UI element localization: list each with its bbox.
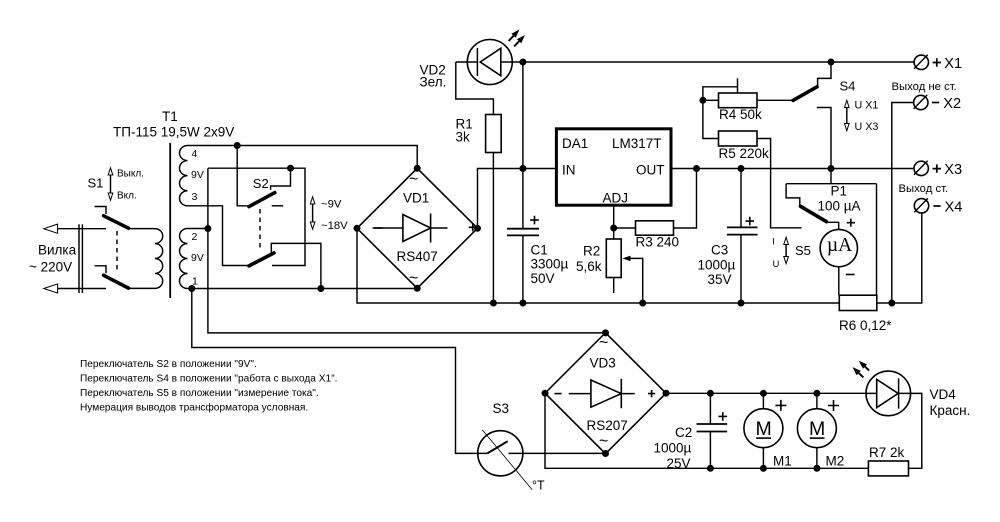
svg-text:R2: R2 xyxy=(583,244,600,259)
svg-text:I: I xyxy=(772,236,775,247)
S4 position arrow U X1 / U X3 xyxy=(846,105,848,127)
meter plus mark xyxy=(847,219,855,227)
svg-text:X1: X1 xyxy=(944,56,962,72)
svg-text:3300µ: 3300µ xyxy=(531,257,569,272)
svg-text:Переключатель S4 в положении ": Переключатель S4 в положении "работа с в… xyxy=(80,373,338,385)
wire S2 lower contact hook to pin1 rail xyxy=(271,243,321,288)
VD3 vertex node left xyxy=(542,390,549,397)
svg-text:9V: 9V xyxy=(191,169,204,181)
svg-text:DA1: DA1 xyxy=(562,136,588,151)
svg-text:µA: µA xyxy=(827,235,852,256)
node pin1 xyxy=(188,285,195,292)
bridge rectifier VD1 diamond xyxy=(357,168,478,288)
wire OUT rail to X3 xyxy=(671,168,914,170)
capacitor C3 plates xyxy=(727,227,758,234)
node R2 wiper/0V xyxy=(639,300,646,307)
terminal X2 xyxy=(914,95,928,109)
svg-text:Зел.: Зел. xyxy=(420,75,447,90)
node C2 top xyxy=(707,390,714,397)
switch S4 blade xyxy=(793,87,817,101)
svg-text:Выход не ст.: Выход не ст. xyxy=(892,81,957,93)
potentiometer R2 body xyxy=(606,239,621,278)
svg-text:ТП-115 19,5W 2x9V: ТП-115 19,5W 2x9V xyxy=(113,125,234,140)
node X1 rail / S4 xyxy=(828,59,835,66)
svg-text:~: ~ xyxy=(409,171,418,188)
wire pin4 rail to VD1 top xyxy=(188,146,418,169)
S1 position arrow xyxy=(110,172,112,196)
svg-text:1000µ: 1000µ xyxy=(698,258,736,273)
svg-text:~: ~ xyxy=(599,433,608,450)
wire 0V rail from VD1 minus xyxy=(357,228,839,303)
mains cord double line xyxy=(78,224,80,293)
S2 upper alternate contact dash xyxy=(272,205,284,207)
svg-text:ADJ: ADJ xyxy=(603,191,629,206)
label +X1 xyxy=(933,58,941,66)
wire X2 riser xyxy=(892,103,913,304)
node tap/S2 upper contact xyxy=(287,165,294,172)
terminal X1 xyxy=(914,55,928,69)
wire S3 to VD3 bottom xyxy=(509,452,606,454)
label +X3 xyxy=(933,164,941,172)
svg-text:T1: T1 xyxy=(162,109,178,124)
svg-text:R6 0,12*: R6 0,12* xyxy=(839,318,892,333)
svg-text:50V: 50V xyxy=(531,271,555,286)
svg-text:5,6k: 5,6k xyxy=(576,259,602,274)
node S2 lower contact riser on pin1 rail xyxy=(317,285,324,292)
VD1 vertex node top xyxy=(414,165,421,172)
wire VD3 plus rail xyxy=(666,392,866,394)
svg-text:~: ~ xyxy=(599,335,608,352)
wire pin3 to S2 lower pivot xyxy=(188,206,249,266)
wire VD1 plus riser / IN rail xyxy=(478,169,557,229)
VD2 light arrows xyxy=(509,36,514,41)
thermal switch S3 circle xyxy=(478,431,523,476)
wire pin2 stub xyxy=(188,228,208,230)
node R1/0V xyxy=(490,300,497,307)
switch S1 pole B blade xyxy=(104,275,129,288)
VD3 vertex node bottom xyxy=(602,450,609,457)
wire VD4 to R7 xyxy=(909,393,922,468)
svg-text:X2: X2 xyxy=(943,96,961,112)
wire R4/R5 left link xyxy=(703,100,719,138)
svg-text:OUT: OUT xyxy=(636,163,665,178)
svg-text:3: 3 xyxy=(192,191,198,203)
svg-text:~18V: ~18V xyxy=(321,220,348,232)
plug prong arrow bottom xyxy=(44,284,58,293)
svg-text:R5 220k: R5 220k xyxy=(719,146,770,161)
wire pin1 rail to VD1 bottom xyxy=(188,288,418,290)
svg-text:1000µ: 1000µ xyxy=(654,441,692,456)
svg-text:Нумерация выводов трансформато: Нумерация выводов трансформатора условна… xyxy=(80,402,308,414)
S2 range arrow ~9V/~18V xyxy=(312,201,314,225)
S5 fixed contact I xyxy=(786,184,800,206)
wire R3 to OUT rail xyxy=(674,169,697,229)
wire S5 pivot to meter plus xyxy=(827,222,839,229)
svg-text:4: 4 xyxy=(192,148,198,160)
S1 gang dashed link xyxy=(116,231,118,273)
wire tap rail (pin2 riser) xyxy=(208,168,305,265)
node pin4/S2 xyxy=(234,142,241,149)
wire C1 to 0V rail xyxy=(522,235,524,303)
VD3 vertex node right xyxy=(663,390,670,397)
T1 core xyxy=(169,143,171,298)
VD3 minus mark xyxy=(554,393,561,395)
svg-text:Вкл.: Вкл. xyxy=(117,191,137,202)
node OUT/C3 xyxy=(738,165,745,172)
svg-text:9V: 9V xyxy=(191,252,204,264)
svg-text:Выкл.: Выкл. xyxy=(117,169,144,180)
svg-text:~9V: ~9V xyxy=(321,199,342,211)
S2 gang dashed link xyxy=(259,209,261,251)
C2 plus mark xyxy=(718,412,727,421)
svg-text:VD4: VD4 xyxy=(930,387,957,402)
svg-text:R3 240: R3 240 xyxy=(636,235,680,250)
wire ADJ to R3 xyxy=(617,227,636,229)
M1 plus mark xyxy=(775,400,786,411)
svg-text:S5: S5 xyxy=(795,243,811,258)
switch S1 pole B fixed contact xyxy=(95,266,107,274)
C3 plus mark xyxy=(746,217,755,226)
VD1 vertex node left xyxy=(354,225,361,232)
VD3 vertex node top xyxy=(602,329,609,336)
VD1 vertex node bottom xyxy=(414,285,421,292)
wire X1 rail to IN rail / C1 xyxy=(522,62,524,229)
node M2 bottom xyxy=(813,465,820,472)
VD1 plus mark xyxy=(469,223,477,231)
terminal X3 xyxy=(914,161,928,175)
S5 position arrow xyxy=(785,242,787,260)
svg-text:U X3: U X3 xyxy=(855,121,879,133)
node C1/0V xyxy=(519,300,526,307)
wire pin1 to S3 xyxy=(192,289,488,454)
VD2 diode symbol xyxy=(456,48,513,76)
svg-text:Переключатель S2 в положении ": Переключатель S2 в положении "9V". xyxy=(80,359,257,370)
node IN rail / C1 xyxy=(519,165,526,172)
node R6 right / X2 riser xyxy=(888,300,895,307)
wire mains top xyxy=(58,228,106,230)
VD3 plus mark xyxy=(648,390,655,397)
svg-text:RS407: RS407 xyxy=(397,249,438,264)
wire R4 left lead xyxy=(703,99,719,101)
VD4 light arrows xyxy=(859,373,864,377)
svg-text:C2: C2 xyxy=(675,425,692,440)
node M1 top xyxy=(760,390,767,397)
node C2 bottom xyxy=(707,465,714,472)
VD3 internal diode xyxy=(569,393,635,395)
R2 bottom stub xyxy=(613,278,615,294)
wire P1 branch from OUT node xyxy=(786,169,876,184)
node VD2/X1 rail xyxy=(519,59,526,66)
svg-text:VD1: VD1 xyxy=(403,191,429,206)
motor M2 circle xyxy=(797,409,836,448)
wire S2 upper contact hook xyxy=(271,168,291,190)
wire R5 right to S5 U-contact xyxy=(757,139,802,228)
switch S1 pole A blade xyxy=(104,216,129,228)
T1 secondary winding II (pins 2-1) xyxy=(180,229,188,289)
R4 wiper stub and bracket xyxy=(703,78,738,100)
wire pin2 vertical down to lower bridge xyxy=(208,168,606,333)
potentiometer R4 body xyxy=(719,93,758,108)
svg-text:R7 2k: R7 2k xyxy=(869,445,905,460)
motor M1 circle xyxy=(744,409,783,448)
capacitor C2 plates xyxy=(697,424,728,432)
svg-text:~: ~ xyxy=(409,270,418,287)
R2 wiper arrow xyxy=(623,256,631,262)
switch S2 upper blade xyxy=(249,193,275,207)
svg-text:Переключатель S5 в положении ": Переключатель S5 в положении "измерение … xyxy=(80,388,319,399)
wire mains bottom xyxy=(58,288,106,290)
LED VD2 circle xyxy=(467,40,512,85)
wire C3 riser xyxy=(740,169,742,228)
svg-text:Красн.: Красн. xyxy=(930,403,971,418)
node ADJ xyxy=(610,225,617,232)
svg-text:S2: S2 xyxy=(253,176,269,191)
svg-text:IN: IN xyxy=(562,163,576,178)
node M1 bottom xyxy=(760,465,767,472)
node pin2 xyxy=(204,225,211,232)
wire C2 riser xyxy=(709,393,711,424)
VD1 vertex node right xyxy=(474,225,481,232)
LED VD4 circle xyxy=(866,371,911,416)
svg-text:P1: P1 xyxy=(831,184,848,199)
regulator DA1 LM317T box xyxy=(556,129,671,205)
node R4/R5 left xyxy=(699,97,706,104)
svg-text:LM317T: LM317T xyxy=(612,136,662,151)
S3 blade xyxy=(487,441,507,453)
svg-text:100 µA: 100 µA xyxy=(818,199,861,214)
svg-text:M: M xyxy=(755,418,771,440)
shunt resistor R6 xyxy=(839,295,877,310)
resistor R7 xyxy=(868,461,908,476)
svg-text:°T: °T xyxy=(532,479,545,493)
svg-text:S4: S4 xyxy=(840,79,856,94)
svg-text:M: M xyxy=(809,418,825,440)
M1 wires xyxy=(762,393,764,468)
S3 temperature line xyxy=(482,430,532,490)
svg-text:Выход ст.: Выход ст. xyxy=(899,183,949,195)
svg-text:35V: 35V xyxy=(708,272,732,287)
svg-text:X3: X3 xyxy=(944,162,962,178)
node OUT/R3 riser xyxy=(693,165,700,172)
label -X2 xyxy=(932,102,939,104)
T1 secondary winding I (pins 4-3) xyxy=(180,146,188,206)
wire VD3 minus to lower 0V rail xyxy=(545,393,868,468)
wire S4 top contact from X1 rail xyxy=(818,62,831,86)
svg-text:U: U xyxy=(773,259,780,270)
meter minus mark xyxy=(846,274,855,276)
svg-text:3k: 3k xyxy=(456,130,471,145)
node M2 top xyxy=(813,390,820,397)
M2 plus mark xyxy=(828,400,839,411)
wire R4 right lead to S4 xyxy=(757,99,793,101)
svg-text:RS207: RS207 xyxy=(587,418,628,433)
svg-text:S1: S1 xyxy=(88,176,104,191)
svg-text:VD3: VD3 xyxy=(590,356,616,371)
wire 0V to X4 corner xyxy=(877,212,922,303)
wire ADJ pin xyxy=(613,205,615,239)
VD1 internal diode xyxy=(373,227,448,229)
svg-text:~ 220V: ~ 220V xyxy=(29,260,72,275)
wire C2 to lower 0V xyxy=(709,432,711,469)
resistor R3 xyxy=(636,221,674,235)
meter P1 circle xyxy=(820,229,857,266)
capacitor C1 plates xyxy=(507,229,539,236)
svg-text:R4 50k: R4 50k xyxy=(719,107,762,122)
svg-text:C3: C3 xyxy=(711,243,728,258)
svg-text:U X1: U X1 xyxy=(855,100,879,112)
svg-text:M1: M1 xyxy=(773,454,792,469)
svg-text:X4: X4 xyxy=(945,199,963,215)
S4 lower contact to X3 rail xyxy=(817,108,831,169)
switch S2 lower blade xyxy=(249,253,274,266)
wire meter minus to R6 xyxy=(838,267,840,295)
wire +X1 top rail xyxy=(512,61,913,63)
plug prong arrow top xyxy=(44,224,58,233)
wire VD2 left jog to R1 xyxy=(456,62,494,115)
svg-text:C1: C1 xyxy=(531,243,548,258)
svg-text:S3: S3 xyxy=(493,401,510,416)
svg-text:Вилка: Вилка xyxy=(38,243,77,258)
C1 plus mark xyxy=(530,216,539,225)
T1 primary winding xyxy=(130,229,163,289)
bridge rectifier VD3 diamond xyxy=(545,333,666,454)
svg-text:2: 2 xyxy=(192,231,198,243)
M2 wires xyxy=(816,393,818,468)
switch S5 blade xyxy=(801,206,827,221)
terminal X4 xyxy=(914,199,928,213)
VD1 minus mark xyxy=(374,227,382,229)
wire R1 to 0V rail xyxy=(492,153,494,304)
wire S2 upper pivot feed from pin4 xyxy=(237,146,247,206)
node C3/0V xyxy=(738,300,745,307)
switch S1 pole A fixed contact xyxy=(95,207,107,215)
node OUT/S4/P1 xyxy=(828,165,835,172)
resistor R5 xyxy=(719,131,758,146)
label -X4 xyxy=(933,205,940,207)
svg-text:M2: M2 xyxy=(826,454,845,469)
wire C3 to 0V rail xyxy=(740,235,742,303)
wire S5 U riser to R6 right xyxy=(876,184,878,296)
resistor R1 xyxy=(486,115,502,153)
VD4 diode symbol xyxy=(866,378,910,408)
svg-text:25V: 25V xyxy=(667,456,691,471)
